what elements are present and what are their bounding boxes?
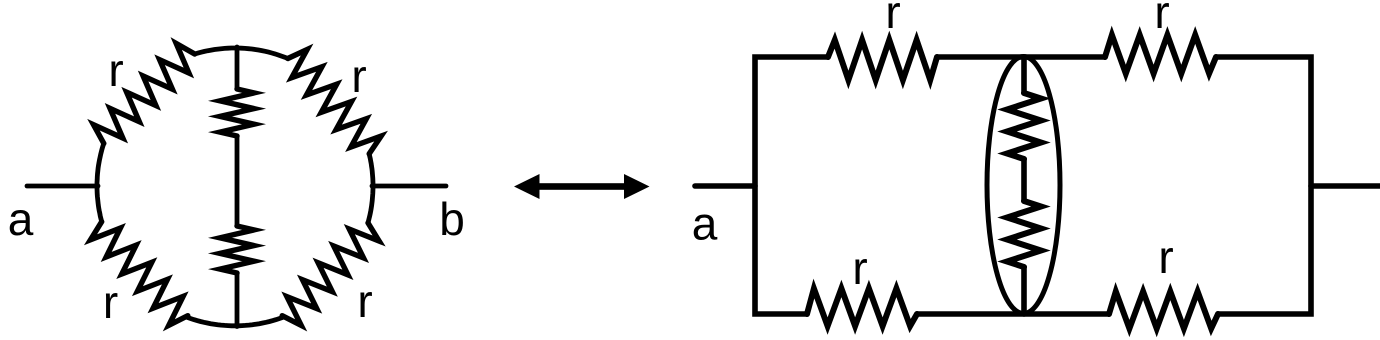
- wire between R5 and R6: [235, 136, 240, 226]
- resistor R8 (top-right branch, value r): [1105, 35, 1216, 74]
- resistor R2 (top-right of ring, value r): [288, 50, 381, 154]
- wire from R6 to bottom node: [235, 273, 240, 327]
- wire right edge with top-right and bottom-right corners (right circuit): [1216, 57, 1311, 314]
- arc wire at top node of ring: [195, 48, 288, 59]
- arc wire at right terminal of ring: [368, 154, 373, 223]
- svg-text:r: r: [108, 44, 123, 96]
- svg-text:r: r: [1154, 0, 1169, 38]
- wire from top node into centre branch: [235, 47, 240, 89]
- wire lead to node a (right circuit): [695, 183, 755, 189]
- arc wire at left terminal of ring: [97, 143, 104, 221]
- svg-text:r: r: [852, 242, 867, 294]
- wire bottom edge middle segment: [917, 311, 1109, 317]
- svg-text:a: a: [8, 193, 34, 245]
- ellipse enclosure around centre branch: [987, 57, 1060, 314]
- arc wire at bottom node of ring: [187, 317, 283, 325]
- wire lead to node a (left circuit): [27, 184, 98, 189]
- resistor R5 (upper centre branch): [220, 89, 254, 136]
- svg-text:r: r: [357, 275, 372, 327]
- svg-text:r: r: [351, 50, 366, 102]
- resistor R6 (lower centre branch): [220, 226, 254, 273]
- wire lead to node b (right circuit): [1311, 183, 1380, 189]
- svg-text:r: r: [103, 276, 118, 328]
- resistor R3 (bottom-left of ring, value r): [91, 222, 188, 326]
- resistor R7 (top-left branch, value r): [828, 40, 937, 80]
- wire from top edge into ellipse branch: [1021, 57, 1027, 93]
- resistor R12 (lower ellipse branch): [1007, 201, 1041, 267]
- wire top edge middle segment: [937, 54, 1105, 60]
- wire from R12 to bottom edge: [1021, 267, 1027, 314]
- equivalence double arrow: [514, 174, 650, 199]
- svg-text:r: r: [1158, 231, 1173, 283]
- svg-text:b: b: [439, 193, 465, 245]
- svg-text:r: r: [885, 0, 900, 38]
- wire lead to node b (left circuit): [372, 184, 446, 189]
- resistor R10 (bottom-right branch, value r): [1109, 292, 1218, 329]
- wire between R11 and R12: [1021, 159, 1027, 201]
- resistor R1 (top-left of ring, value r): [94, 44, 195, 144]
- resistor R4 (bottom-right of ring, value r): [282, 223, 379, 326]
- svg-text:a: a: [692, 198, 718, 250]
- resistor R9 (bottom-left branch, value r): [807, 289, 917, 327]
- resistor R11 (upper ellipse branch): [1007, 93, 1041, 159]
- wire left edge with top-left and bottom-left corners (right circuit): [755, 57, 828, 314]
